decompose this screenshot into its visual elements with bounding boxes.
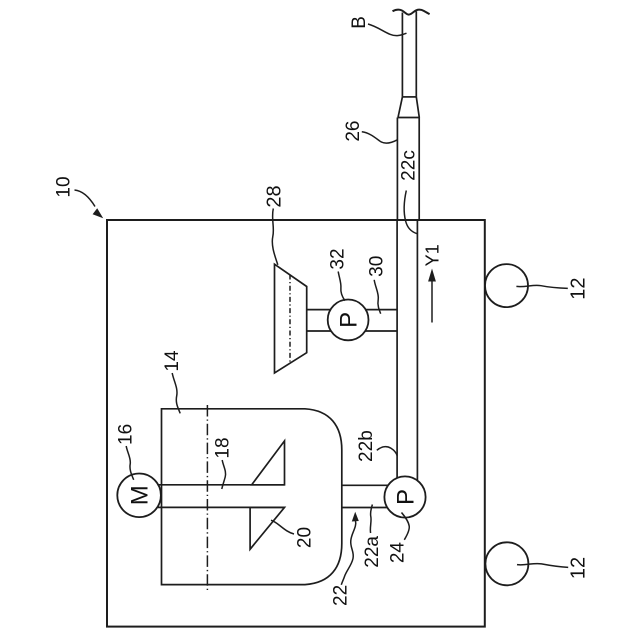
svg-text:18: 18 (212, 437, 233, 458)
svg-text:14: 14 (162, 350, 183, 372)
svg-text:32: 32 (327, 248, 348, 269)
svg-text:28: 28 (263, 185, 285, 207)
svg-text:12: 12 (568, 277, 590, 299)
svg-text:26: 26 (343, 121, 364, 142)
svg-text:B: B (349, 16, 370, 29)
svg-text:22: 22 (331, 585, 352, 606)
svg-text:10: 10 (54, 176, 75, 197)
svg-text:20: 20 (295, 527, 316, 548)
svg-text:22b: 22b (356, 430, 377, 462)
svg-text:16: 16 (116, 424, 137, 445)
svg-text:22a: 22a (362, 536, 383, 568)
svg-text:P: P (392, 489, 419, 505)
svg-text:M: M (127, 485, 154, 505)
svg-text:30: 30 (366, 256, 387, 277)
svg-text:12: 12 (568, 557, 590, 579)
svg-text:22c: 22c (399, 150, 420, 181)
svg-text:24: 24 (387, 542, 408, 564)
svg-text:Y1: Y1 (423, 244, 443, 266)
svg-text:P: P (336, 312, 363, 328)
